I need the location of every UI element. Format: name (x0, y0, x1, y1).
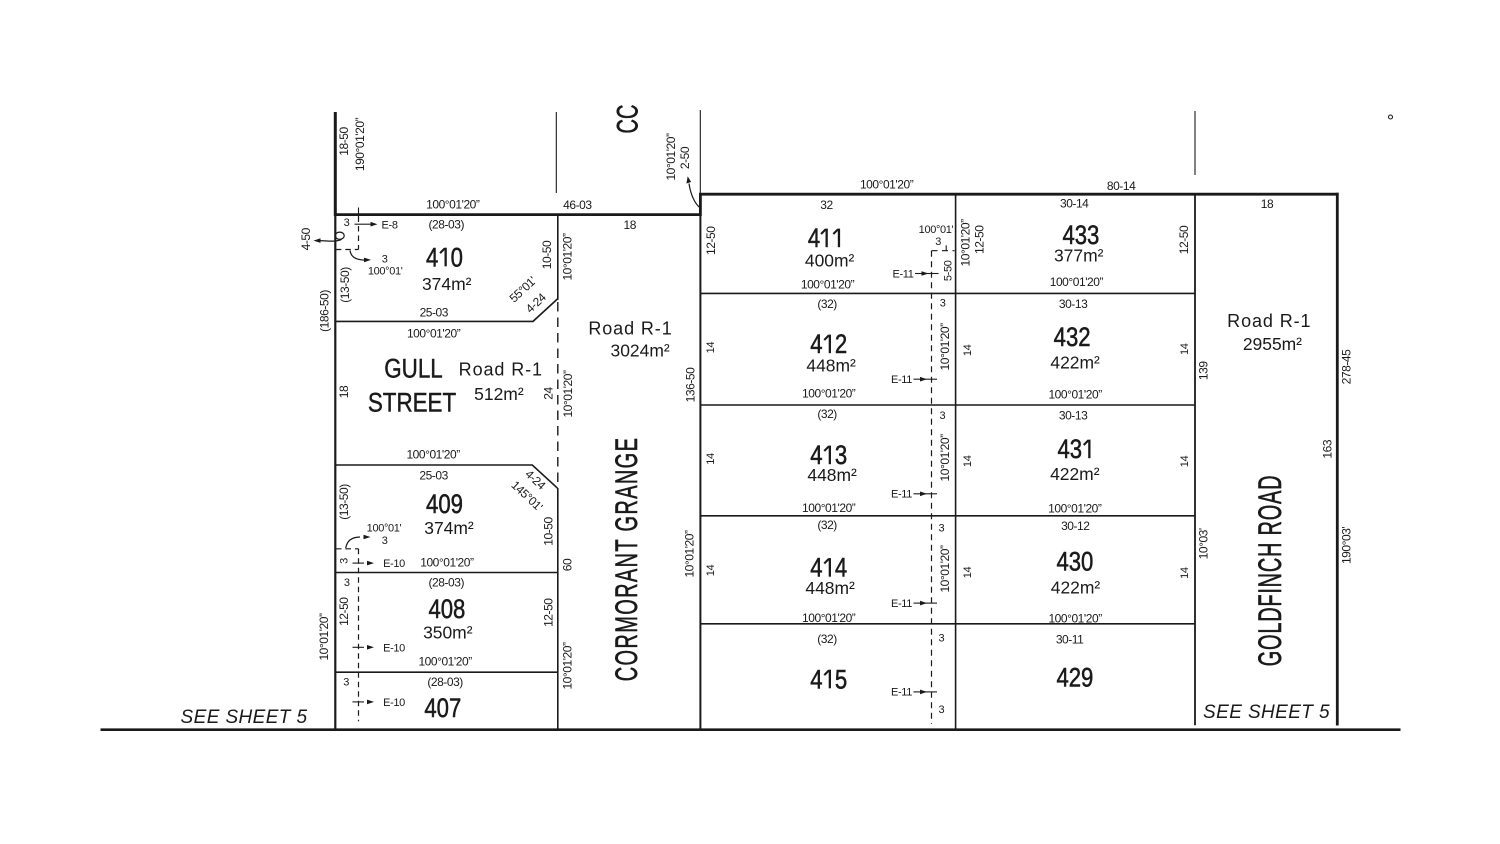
svg-text:3: 3 (344, 217, 350, 229)
svg-text:18: 18 (623, 218, 636, 232)
easement E-10 dashed east line through lots 409-407 (358, 549, 360, 722)
easement E-11 dashed north line (932, 250, 955, 252)
svg-text:E-11: E-11 (892, 268, 913, 280)
easement E-8 dashed south line (336, 249, 359, 251)
svg-text:GULL: GULL (384, 355, 443, 384)
easement E-11 arrow and tick row 1 (915, 273, 922, 275)
svg-text:(32): (32) (817, 632, 837, 646)
gull street south boundary / lot 409 north with splay corner (335, 465, 557, 488)
easement E-10 tick and arrow at lot 408 (353, 646, 365, 648)
svg-text:422m²: 422m² (1050, 464, 1100, 484)
svg-text:100°01': 100°01' (919, 224, 954, 236)
svg-text:(28-03): (28-03) (427, 675, 463, 689)
svg-text:100°01'20”: 100°01'20” (418, 655, 472, 669)
divider between lots 411-415 and 429-433 (955, 194, 957, 728)
svg-text:100°01'20”: 100°01'20” (407, 326, 461, 340)
svg-text:E-11: E-11 (891, 687, 912, 699)
lot 413/431 south boundary (700, 515, 1195, 517)
svg-text:448m²: 448m² (806, 355, 856, 375)
svg-text:3024m²: 3024m² (611, 340, 670, 360)
svg-text:CORMORANT GRANGE: CORMORANT GRANGE (608, 437, 644, 682)
svg-text:E-11: E-11 (891, 374, 912, 386)
svg-text:30-14: 30-14 (1060, 197, 1089, 211)
svg-text:24: 24 (542, 387, 556, 400)
svg-text:(28-03): (28-03) (429, 575, 465, 589)
svg-text:E-11: E-11 (891, 489, 912, 501)
svg-text:448m²: 448m² (807, 465, 857, 485)
svg-text:SEE SHEET 5: SEE SHEET 5 (1203, 702, 1330, 723)
svg-text:100°01'20”: 100°01'20” (802, 611, 856, 625)
svg-text:3: 3 (338, 558, 350, 564)
degree mark top right (1389, 115, 1393, 119)
svg-text:278-45: 278-45 (1340, 349, 1354, 384)
svg-text:GOLDFINCH ROAD: GOLDFINCH ROAD (1252, 475, 1288, 667)
svg-text:14: 14 (705, 342, 717, 354)
svg-text:100°01'20”: 100°01'20” (860, 178, 914, 192)
svg-text:Road R-1: Road R-1 (1227, 311, 1311, 331)
west outer boundary upper segment (334, 112, 337, 216)
svg-text:10°01'20”: 10°01'20” (561, 233, 575, 281)
4-50 dimension loop pointer (335, 232, 344, 239)
svg-text:3: 3 (344, 577, 350, 589)
lot 410 south boundary with splay corner (335, 299, 557, 321)
thin stub line above cormorant west (555, 112, 557, 193)
svg-text:14: 14 (1179, 456, 1191, 468)
step corner pointer curve 2-50 (689, 184, 700, 209)
svg-text:32: 32 (820, 198, 833, 212)
svg-text:374m²: 374m² (422, 274, 472, 294)
svg-text:3: 3 (382, 535, 388, 547)
svg-text:429: 429 (1056, 664, 1093, 694)
svg-text:E-10: E-10 (383, 697, 405, 709)
svg-text:100°01'20”: 100°01'20” (801, 277, 855, 291)
svg-text:12-50: 12-50 (542, 598, 556, 627)
redrawn digit 1 glyphs without serif feet (439, 247, 451, 267)
svg-text:3: 3 (343, 676, 349, 688)
svg-text:10°01'20”: 10°01'20” (958, 219, 972, 267)
svg-text:25-03: 25-03 (420, 306, 449, 320)
svg-text:14: 14 (705, 565, 717, 577)
lot 411/433 south boundary (700, 292, 1195, 294)
lot 409 south boundary (335, 572, 558, 574)
svg-text:190°01'20”: 190°01'20” (353, 117, 367, 171)
svg-text:10°01'20”: 10°01'20” (682, 530, 696, 578)
svg-text:100°01'20”: 100°01'20” (420, 555, 474, 569)
svg-text:400m²: 400m² (805, 250, 855, 270)
easement E-11 arrow and tick row 2 (914, 378, 921, 380)
svg-text:60: 60 (560, 558, 574, 571)
svg-text:4-50: 4-50 (299, 227, 313, 250)
east outer boundary (thick) (1336, 193, 1339, 726)
svg-text:E-10: E-10 (383, 558, 405, 570)
svg-text:3: 3 (939, 633, 945, 645)
svg-text:Road R-1: Road R-1 (459, 359, 543, 379)
cormorant grange west boundary solid lower (557, 488, 559, 729)
svg-text:E-11: E-11 (891, 598, 912, 610)
easement E-10 tick and arrow at lot 407 (353, 701, 365, 703)
svg-text:STREET: STREET (368, 389, 456, 418)
cormorant grange west boundary dashed road junction (557, 302, 559, 487)
svg-text:100°01'20”: 100°01'20” (802, 501, 856, 515)
svg-text:25-03: 25-03 (419, 469, 448, 483)
thin stub line above step corner (699, 110, 701, 194)
easement E-11 arrow and tick row 5 (914, 691, 921, 693)
svg-text:422m²: 422m² (1051, 577, 1101, 597)
svg-text:14: 14 (705, 453, 717, 465)
svg-text:100°01'20”: 100°01'20” (802, 387, 856, 401)
svg-text:Road R-1: Road R-1 (588, 319, 672, 339)
svg-text:100°01'20”: 100°01'20” (1048, 388, 1102, 402)
svg-text:18-50: 18-50 (337, 127, 351, 156)
svg-text:10°01'20”: 10°01'20” (317, 613, 331, 661)
svg-text:12-50: 12-50 (337, 597, 351, 626)
svg-text:(32): (32) (817, 407, 837, 421)
svg-text:3: 3 (382, 253, 388, 265)
svg-text:(28-03): (28-03) (429, 218, 465, 232)
svg-text:3: 3 (939, 523, 945, 535)
easement E-10 dashed north line at lot 409 (336, 548, 359, 550)
svg-text:377m²: 377m² (1054, 245, 1104, 265)
north boundary of right block (699, 193, 1339, 196)
lot 409 frontage pointer curve (346, 537, 360, 548)
svg-text:190°03': 190°03' (1340, 527, 1354, 564)
svg-text:12-50: 12-50 (704, 226, 718, 255)
easement E-11 corner notch (945, 245, 947, 250)
goldfinch road stub above north boundary (1194, 111, 1196, 175)
svg-text:374m²: 374m² (424, 518, 474, 538)
goldfinch road west boundary (1194, 194, 1196, 725)
svg-text:3: 3 (940, 410, 946, 422)
svg-text:14: 14 (962, 344, 974, 356)
lot 412/432 south boundary (700, 404, 1195, 406)
svg-text:10°01'20”: 10°01'20” (561, 370, 575, 418)
svg-text:10°01'20”: 10°01'20” (938, 545, 952, 593)
svg-text:10°01'20”: 10°01'20” (938, 434, 952, 482)
easement E-11 dashed centre line (931, 251, 933, 724)
svg-text:448m²: 448m² (805, 578, 855, 598)
easement E-8 arrow (363, 223, 373, 225)
road step corner at cormorant grange (699, 193, 702, 216)
svg-text:E-8: E-8 (382, 220, 398, 232)
svg-text:350m²: 350m² (423, 622, 473, 642)
svg-text:30-13: 30-13 (1059, 408, 1088, 422)
svg-text:430: 430 (1056, 548, 1093, 578)
svg-text:163: 163 (1320, 439, 1334, 458)
svg-text:14: 14 (962, 455, 974, 467)
north boundary of left block (334, 213, 702, 216)
svg-text:(186-50): (186-50) (318, 290, 332, 332)
svg-text:407: 407 (424, 694, 461, 724)
svg-text:100°01'20”: 100°01'20” (1048, 502, 1102, 516)
svg-text:(13-50): (13-50) (338, 267, 352, 303)
svg-text:(32): (32) (817, 297, 837, 311)
svg-text:12-50: 12-50 (1177, 225, 1191, 254)
svg-text:10°01'20”: 10°01'20” (664, 133, 678, 181)
svg-text:SEE SHEET 5: SEE SHEET 5 (181, 707, 308, 728)
svg-text:10-50: 10-50 (540, 240, 554, 269)
svg-text:432: 432 (1054, 323, 1091, 353)
svg-text:CC: CC (612, 105, 645, 134)
svg-text:100°01': 100°01' (367, 522, 402, 534)
svg-text:(13-50): (13-50) (337, 484, 351, 520)
cormorant grange west boundary solid upper (557, 214, 559, 300)
svg-text:422m²: 422m² (1050, 352, 1100, 372)
svg-text:12-50: 12-50 (973, 225, 987, 254)
svg-text:100°01'20”: 100°01'20” (426, 198, 480, 212)
svg-text:30-12: 30-12 (1061, 519, 1090, 533)
easement E-11 arrow and tick row 4 (914, 602, 921, 604)
svg-text:30-11: 30-11 (1056, 633, 1084, 647)
svg-text:30-13: 30-13 (1059, 297, 1088, 311)
svg-text:5-50: 5-50 (943, 260, 955, 281)
easement E-8 boundary tick (358, 208, 360, 220)
svg-text:139: 139 (1196, 361, 1210, 380)
lot 414/430 south boundary (700, 623, 1195, 625)
west boundary lower segment (334, 214, 336, 729)
svg-text:409: 409 (426, 490, 463, 520)
svg-text:100°01'20”: 100°01'20” (1050, 275, 1104, 289)
svg-text:100°01'20”: 100°01'20” (406, 448, 460, 462)
sheet edge bottom border line (101, 728, 1401, 731)
svg-text:E-10: E-10 (383, 642, 405, 654)
easement E-10 tick and arrow at lot 409 (353, 562, 365, 564)
svg-text:3: 3 (939, 704, 945, 716)
easement E-8 tick (355, 223, 363, 225)
svg-text:2955m²: 2955m² (1243, 334, 1302, 354)
cormorant grange east boundary (699, 216, 701, 729)
svg-text:14: 14 (1179, 567, 1191, 579)
easement E-11 arrow and tick row 3 (914, 493, 921, 495)
svg-text:(32): (32) (817, 518, 837, 532)
svg-text:100°01'20”: 100°01'20” (1048, 612, 1102, 626)
svg-text:10°03': 10°03' (1196, 528, 1210, 559)
svg-text:3: 3 (935, 236, 941, 248)
svg-text:10°01'20”: 10°01'20” (561, 642, 575, 690)
lot 410 frontage pointer curve (350, 251, 365, 261)
svg-text:10-50: 10-50 (542, 517, 556, 546)
svg-text:80-14: 80-14 (1107, 179, 1136, 193)
easement E-8 dashed west line (358, 217, 360, 250)
svg-text:100°01': 100°01' (368, 266, 403, 278)
svg-text:14: 14 (962, 567, 974, 579)
svg-text:3: 3 (940, 298, 946, 310)
svg-text:18: 18 (1261, 197, 1274, 211)
svg-text:408: 408 (428, 595, 465, 625)
lot 408 south boundary (335, 671, 558, 673)
svg-text:2-50: 2-50 (678, 146, 692, 169)
svg-text:18: 18 (337, 385, 351, 398)
svg-text:14: 14 (1179, 343, 1191, 355)
svg-text:136-50: 136-50 (684, 367, 698, 402)
svg-text:10°01'20”: 10°01'20” (938, 323, 952, 371)
svg-text:46-03: 46-03 (563, 198, 592, 212)
svg-text:512m²: 512m² (474, 384, 524, 404)
